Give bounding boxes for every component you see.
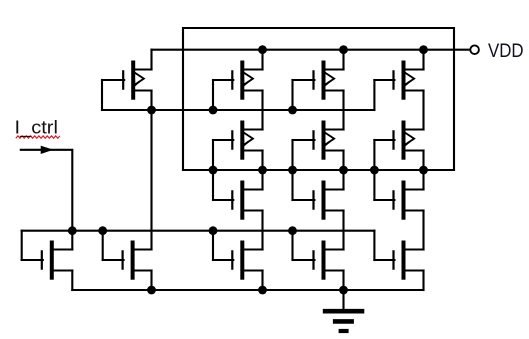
junction dot ground rail 3 [339,286,348,295]
junction dot row-4 gate rail 4 [288,226,297,235]
wire row-2/3 gate rail [183,169,454,171]
junction dot row-2/3 gate rail 4 [339,166,348,175]
wire M11 gate [21,231,23,260]
wire M1 gate loop [101,80,103,110]
transistor M13 [213,241,263,280]
wire M11 drain to input node [71,231,73,250]
wire M13 source to ground rail [261,271,263,291]
svg-text:VDD: VDD [488,40,524,62]
wire M1 source / node A column [150,91,152,250]
junction dot row-2/3 gate rail 2 [258,166,267,175]
wire M12 gate [102,231,104,260]
transistor M6 [293,121,344,160]
wire M9 source to M14 drain [342,211,344,250]
wire M13 gate [212,231,214,260]
wire M1 drain to VDD [150,50,152,70]
wire I_ctrl input [21,150,73,231]
transistor M14 [293,241,344,280]
ground [323,290,365,331]
wire M4 gate to rail end [373,80,375,110]
wire M14 gate [291,231,293,260]
transistor M8 [213,181,263,220]
wire M15 gate [373,231,375,260]
wire M6 source to M9 drain [342,151,344,190]
junction dot row-2/3 gate rail 1 [209,166,218,175]
wire row-4 gate rail (mirror input net) [22,230,375,232]
wire M5 source to M8 drain [261,151,263,190]
junction dot VDD rail 1 [258,45,267,54]
junction dot row-2/3 gate rail 3 [288,166,297,175]
junction dot VDD rail 3 [419,45,428,54]
wire M4 drain to VDD [422,50,424,70]
wire M4 source to M7 drain [422,91,424,130]
junction dot row-2/3 gate rail 5 [370,166,379,175]
transistor M10 [374,181,423,220]
wire M12 source to ground rail [150,271,152,291]
wire M6/M9 gates [291,140,293,200]
transistor M15 [374,241,423,280]
wire M15 source to ground rail [422,271,424,291]
junction dot row-4 gate rail 2 [98,226,107,235]
VDD terminal circle [470,45,479,54]
wire M14 source to ground node [342,271,344,291]
spellcheck squiggle under I_ctrl [16,136,60,138]
wire M8 source to M13 drain [261,211,263,250]
wire top frame (cascode bias net loop) [183,28,454,170]
wire M7 source to M10 drain [422,151,424,190]
junction dot row-4 gate rail 1 [68,226,77,235]
transistor M3 [293,61,344,100]
junction dot row-4 gate rail 3 [209,226,218,235]
transistor M4 [374,61,423,100]
transistor M7 [374,121,423,160]
wire M3 gate [291,80,293,110]
junction dot row-1 gate rail 2 [209,106,218,115]
transistor M11 [22,241,73,280]
wire M7/M10 gates [373,140,375,200]
junction dot row-2/3 gate rail 6 [419,166,428,175]
wire M11 source to ground rail [71,271,73,291]
transistor M12 [103,241,152,280]
wire row-1 gate rail [102,109,374,111]
svg-text:I_ctrl: I_ctrl [15,118,58,139]
wire M2 source to M5 drain [261,91,263,130]
wire M10 source to M15 drain [422,211,424,250]
junction dot ground rail 1 [147,286,156,295]
transistor M1 [102,61,152,100]
wire VDD rail [152,49,471,51]
junction dot VDD rail 2 [339,45,348,54]
transistor M9 [293,181,344,220]
transistor M5 [213,121,263,160]
wire M2 drain to VDD [261,50,263,70]
wire M5/M8 gates [212,140,214,200]
junction dot row-1 gate rail 3 [288,106,297,115]
junction dot row-1 gate rail 1 [147,106,156,115]
wire M3 drain to VDD [342,50,344,70]
wire ground rail [72,289,423,291]
junction dot ground rail 2 [258,286,267,295]
transistor M2 [213,61,263,100]
arrowhead I_ctrl [41,146,52,153]
wire M2 gate [212,80,214,110]
wire M3 source to M6 drain [342,91,344,130]
